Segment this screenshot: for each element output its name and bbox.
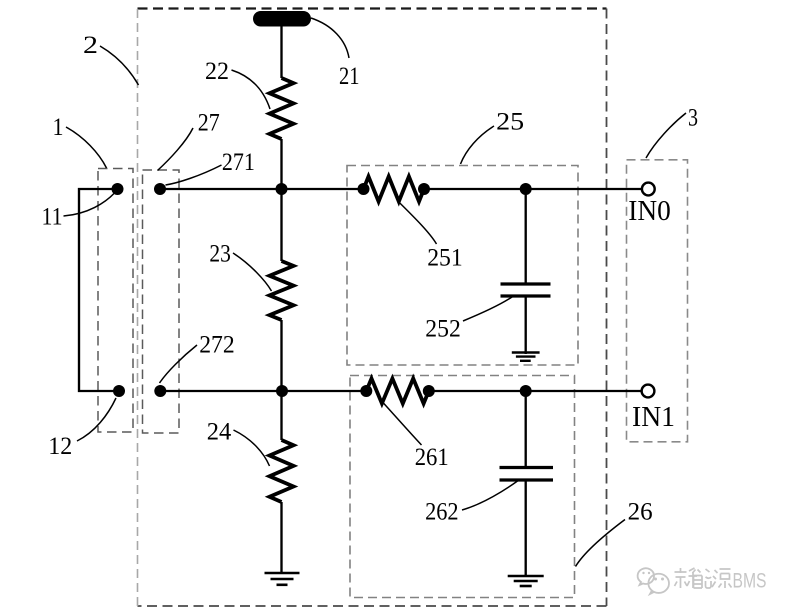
leader for label 23 [233, 253, 272, 291]
svg-text:IN1: IN1 [632, 401, 675, 433]
dashed box 2 (filter network enclosure) [138, 9, 607, 607]
svg-text:26: 26 [628, 499, 653, 526]
resistor R261 [366, 379, 429, 404]
svg-text:1: 1 [53, 114, 64, 141]
leader for label 2 [100, 46, 139, 85]
svg-text:22: 22 [205, 58, 229, 85]
node: resistor 251 right pin [418, 183, 430, 195]
svg-text:27: 27 [198, 110, 220, 137]
svg-text:252: 252 [425, 316, 461, 343]
watermark text 新能源BMS [675, 568, 732, 588]
dashed box 27 (node pair 271/272) [143, 170, 180, 433]
svg-text:271: 271 [222, 149, 255, 176]
wire: row IN0 from node 271 to resistor 251 [160, 188, 364, 190]
glyph 能 [693, 569, 712, 588]
svg-text:12: 12 [48, 433, 72, 460]
svg-text:272: 272 [199, 332, 235, 359]
node 11 [112, 183, 124, 195]
capacitor C262 [500, 468, 554, 481]
svg-text:262: 262 [425, 499, 459, 526]
svg-text:IN0: IN0 [628, 195, 671, 227]
svg-text:23: 23 [209, 241, 231, 268]
dashed box 25 (RC filter for IN0) [347, 166, 578, 366]
leader for label 271 [166, 165, 222, 185]
resistor R23 [270, 261, 294, 320]
node 12 [113, 385, 125, 397]
wire: resistor 23 to resistor 24 through junction on row IN1 [280, 320, 282, 440]
leader for label 272 [160, 345, 198, 383]
leader for label 26 [576, 520, 626, 567]
junction node row IN1 / resistor column [276, 385, 288, 397]
terminal IN0 (open circle) [642, 183, 655, 196]
leader for label 12 [77, 398, 116, 441]
leader for label 252 [463, 297, 512, 321]
svg-text:11: 11 [42, 204, 63, 231]
node: resistor 261 left pin [360, 385, 372, 397]
ground under capacitor 252 [512, 353, 540, 361]
svg-text:251: 251 [427, 245, 463, 272]
resistor R24 [270, 440, 294, 502]
wire: junction to capacitor 262 [525, 391, 527, 468]
node 272 [154, 385, 166, 397]
svg-text:BMS: BMS [733, 570, 767, 593]
junction node row IN1 / capacitor 262 [520, 385, 532, 397]
watermark logo (two chat bubbles) [638, 568, 669, 594]
component 21 (thermistor/fuse pill) [253, 11, 311, 27]
ground under resistor 24 [265, 573, 300, 585]
wire: capacitor 262 to ground [525, 480, 527, 576]
resistor R22 [270, 78, 294, 139]
node 271 [154, 183, 166, 195]
wire: left L-shaped link from node 11 down to node 12 [79, 189, 119, 391]
leader for label 22 [232, 70, 271, 109]
leader for label 1 [66, 127, 107, 168]
junction node row IN0 / capacitor 252 [520, 183, 532, 195]
wire: row IN1 from node 272 to resistor 261 [160, 390, 366, 392]
wire: resistor 24 to ground [280, 502, 282, 573]
svg-text:21: 21 [339, 63, 360, 90]
glyph 源 [712, 569, 732, 588]
leader for label 261 [383, 402, 422, 445]
resistor R251 [364, 177, 425, 202]
leader for label 251 [399, 202, 437, 244]
leader for label 25 [461, 126, 495, 164]
svg-text:24: 24 [207, 418, 232, 445]
terminal IN1 (open circle) [642, 385, 655, 398]
wire: resistor 22 to resistor 23 through node 271-junction [280, 139, 282, 261]
leader for label 11 [64, 193, 116, 217]
glyph 新 [675, 568, 698, 588]
wire: row IN0 from resistor 251 to terminal IN0 [424, 188, 642, 190]
dashed box 3 (output terminal block) [627, 160, 688, 442]
node: resistor 261 right pin [423, 385, 435, 397]
dashed box 26 (RC filter for IN1) [350, 376, 575, 598]
svg-text:25: 25 [496, 109, 524, 136]
wire: capacitor 252 to ground [525, 296, 527, 354]
leader for label 24 [234, 430, 270, 466]
leader for label 3 [646, 113, 686, 158]
node: resistor 251 left pin [358, 183, 370, 195]
junction node row IN0 / resistor column [276, 183, 288, 195]
dashed box 1 (connector block, nodes 11/12) [98, 169, 133, 433]
leader for label 21 [311, 18, 349, 58]
wire: row IN1 from resistor 261 to terminal IN1 [429, 390, 642, 392]
svg-text:3: 3 [688, 105, 698, 132]
wire: junction to capacitor 252 [525, 189, 527, 284]
capacitor C252 [501, 284, 551, 296]
svg-text:261: 261 [415, 444, 449, 471]
leader for label 27 [158, 128, 194, 171]
ground under capacitor 262 [508, 576, 544, 586]
svg-text:2: 2 [83, 32, 98, 59]
wire: component 21 down to resistor 22 [280, 24, 282, 78]
leader for label 262 [462, 481, 518, 510]
